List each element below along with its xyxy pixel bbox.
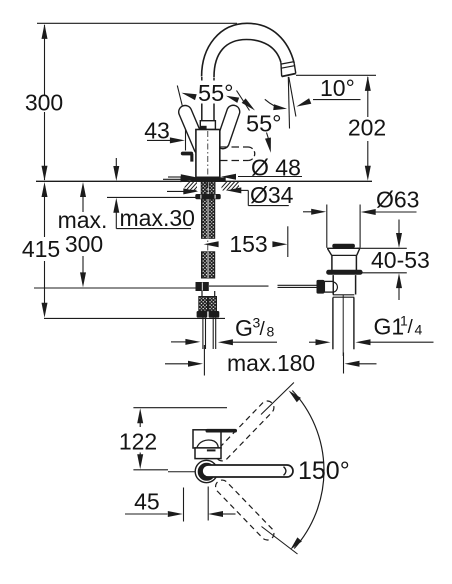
svg-text:max.: max.	[58, 207, 108, 233]
svg-text:300: 300	[65, 231, 103, 257]
svg-text:55°: 55°	[246, 111, 282, 137]
svg-text:45: 45	[134, 489, 160, 515]
svg-text:150°: 150°	[298, 457, 350, 485]
svg-text:/: /	[260, 319, 266, 340]
svg-text:415: 415	[22, 236, 60, 262]
svg-text:/: /	[408, 317, 414, 338]
svg-text:122: 122	[119, 428, 157, 454]
svg-text:Ø63: Ø63	[376, 187, 419, 213]
svg-text:153: 153	[229, 231, 267, 257]
svg-text:40-53: 40-53	[371, 247, 430, 273]
svg-text:10°: 10°	[320, 75, 355, 101]
svg-text:202: 202	[348, 115, 386, 141]
svg-text:55°: 55°	[198, 80, 234, 106]
svg-text:Ø 48: Ø 48	[251, 155, 301, 181]
svg-text:8: 8	[267, 324, 275, 340]
svg-text:max.180: max.180	[227, 350, 315, 376]
svg-text:4: 4	[415, 322, 423, 338]
svg-text:43: 43	[144, 118, 170, 144]
svg-text:max.30: max.30	[120, 205, 195, 231]
svg-text:G: G	[235, 315, 253, 341]
svg-text:Ø34: Ø34	[250, 182, 294, 208]
svg-text:300: 300	[25, 90, 63, 116]
